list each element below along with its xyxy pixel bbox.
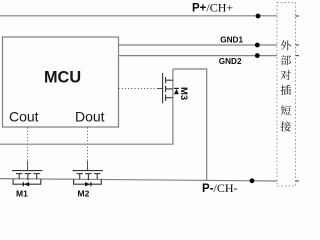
node P+ junction dot [256,14,261,19]
wire M3 drain to P- rail [173,69,207,180]
wire GND1 [119,44,278,46]
svg-text:M1: M1 [16,189,28,199]
wire B- to M3 source (horizontal y=144, up x=173) [0,69,173,144]
wire P+ rail [0,15,277,17]
diode M3 body diode [174,88,179,94]
transistor M3 [163,73,173,103]
wire P- rail [0,179,277,181]
diode M2 body diode [85,182,91,186]
diode M1 body diode [23,182,29,186]
svg-text:P+/CH+: P+/CH+ [192,1,233,15]
wire Dout gate (dotted) [87,128,89,171]
svg-text:GND2: GND2 [219,57,242,66]
wire GND2 [119,55,278,57]
wire Cout gate (dotted) [27,128,29,171]
node GND2 junction dot [255,53,260,58]
svg-text:MCU: MCU [44,69,81,87]
connector terminal stub GND1 [296,44,300,46]
transistor M2 [73,171,103,185]
connector terminal stub GND2 [296,55,300,57]
svg-text:Cout: Cout [9,109,39,125]
svg-text:M2: M2 [78,189,90,199]
label connector text char 对 [281,70,291,80]
label connector text char 外 [281,40,291,50]
svg-text:P-/CH-: P-/CH- [202,181,238,195]
svg-text:M3: M3 [178,87,189,100]
label connector text char 插 [281,85,291,95]
MCU U1 box [3,37,119,127]
label connector text char 接 [281,121,291,131]
transistor M1 [12,171,42,185]
connector terminal stub P- [296,180,300,182]
node P- junction dot [250,178,255,183]
connector box (dashed) 外部对插短接 [277,3,296,187]
label connector text char 短 [281,105,291,115]
label connector text char 部 [281,55,291,65]
svg-text:Dout: Dout [75,109,105,125]
wire M3 gate (dotted) [119,88,163,90]
node GND1 junction dot [255,43,260,48]
connector terminal stub P+ [296,15,300,17]
svg-text:GND1: GND1 [220,36,243,45]
